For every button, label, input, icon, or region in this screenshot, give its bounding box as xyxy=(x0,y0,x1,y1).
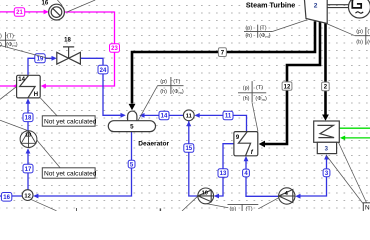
pointer line to pump13 top xyxy=(0,120,27,130)
Not yet calculated box B xyxy=(42,168,96,178)
pointer line turbine to right data box xyxy=(327,24,355,36)
wire steam 7 (thick black) xyxy=(132,21,315,103)
generator G xyxy=(349,0,370,18)
svg-text:(p): (p) xyxy=(245,26,252,32)
svg-text:(Φm): (Φm) xyxy=(259,33,271,39)
svg-text:14: 14 xyxy=(18,77,25,83)
pointer line condenser bottom right xyxy=(339,143,369,208)
wire steam 12 (thick black) xyxy=(264,22,321,144)
svg-text:23: 23 xyxy=(111,46,118,52)
label 11 xyxy=(223,111,233,120)
label 7 xyxy=(218,48,226,57)
svg-text:(Φm): (Φm) xyxy=(6,42,18,48)
label 2 (stream) xyxy=(322,82,330,91)
Not yet calculated box A xyxy=(42,116,96,126)
wire stream 13 (blue) xyxy=(219,144,234,196)
wire stream 21 (magenta) xyxy=(0,11,45,13)
svg-text:18: 18 xyxy=(64,38,71,44)
svg-text:24: 24 xyxy=(100,68,107,74)
data box F (heater 9) xyxy=(238,81,266,102)
label 4 xyxy=(243,169,250,177)
svg-text:16: 16 xyxy=(42,0,49,6)
wire stream 16 (blue) xyxy=(0,195,23,197)
wire cooling water in (green) xyxy=(345,137,370,139)
svg-text:(T): (T) xyxy=(7,34,14,40)
steam turbine 2 xyxy=(304,0,327,24)
data box fragment (bottom left) xyxy=(76,208,78,211)
data box D (turbine right, clipped) xyxy=(355,27,370,45)
svg-text:21: 21 xyxy=(16,10,23,16)
label 15 xyxy=(184,144,194,153)
svg-text:Not yet calculated: Not yet calculated xyxy=(44,171,97,178)
data box C (turbine left) xyxy=(244,25,272,38)
svg-text:12: 12 xyxy=(24,193,30,199)
wire stream 11 (blue) xyxy=(200,115,247,131)
node 12 xyxy=(22,190,33,201)
svg-text:(T): (T) xyxy=(256,85,263,91)
wire stream 15 (blue) xyxy=(189,120,198,196)
pointer line pump13 to Not-yet-calculated B xyxy=(30,132,60,167)
svg-text:19: 19 xyxy=(37,57,44,63)
svg-text:(T): (T) xyxy=(173,79,180,85)
label 23 xyxy=(110,44,120,53)
svg-text:12: 12 xyxy=(284,84,291,90)
label 13 xyxy=(218,169,228,178)
pointer line pump16 right xyxy=(67,0,96,12)
Not yet calculated box N (bottom right, clipped) xyxy=(363,203,370,212)
label 21 xyxy=(14,8,24,17)
label 3 xyxy=(323,169,330,177)
heat exchanger 9 xyxy=(234,132,258,156)
pointer line pump16 top xyxy=(57,0,62,6)
pump 4 xyxy=(279,188,295,204)
svg-text:(Φm): (Φm) xyxy=(255,96,267,102)
svg-text:(h): (h) xyxy=(356,40,363,46)
label 24 xyxy=(98,65,108,74)
svg-text:): ) xyxy=(0,34,2,40)
pointer line heater14 left xyxy=(0,86,17,99)
valve 18 xyxy=(57,47,81,64)
shaft xyxy=(327,5,349,8)
svg-text:18: 18 xyxy=(25,116,32,122)
data box fragment (bottom middle-left) xyxy=(159,208,161,211)
svg-text:10: 10 xyxy=(202,190,208,196)
svg-text:(h): (h) xyxy=(245,33,252,39)
heat exchanger 14 xyxy=(17,75,41,98)
svg-text:15: 15 xyxy=(185,146,192,152)
svg-text:11: 11 xyxy=(186,114,193,120)
svg-text:(p): (p) xyxy=(160,79,167,85)
wire cooling water out (green) xyxy=(340,127,370,129)
wire stream 14 (blue into deaerator) xyxy=(144,114,184,116)
pointer line to valve inlet xyxy=(0,45,50,59)
svg-text:(p): (p) xyxy=(243,86,250,92)
label 16 xyxy=(1,193,11,202)
wire stream 22 (magenta out of heater 14) xyxy=(0,85,17,87)
svg-text:Not yet calculated: Not yet calculated xyxy=(44,119,97,126)
node 11 xyxy=(183,110,194,121)
data box E (deaerator) xyxy=(158,77,184,94)
wire stream 3 (blue) xyxy=(301,159,327,196)
svg-text:Not yet calculated: Not yet calculated xyxy=(365,204,370,211)
label 19 xyxy=(35,54,45,63)
svg-text:11: 11 xyxy=(225,114,232,120)
svg-text:): ) xyxy=(0,42,2,48)
valve 16 (circle with slash) xyxy=(49,4,65,20)
svg-text:2: 2 xyxy=(314,2,318,9)
svg-text:H: H xyxy=(34,92,38,98)
svg-text:(T): (T) xyxy=(246,206,253,211)
label 17 xyxy=(23,164,33,173)
label 5 xyxy=(128,160,135,168)
svg-text:(h): (h) xyxy=(160,89,167,95)
data box H (bottom centre, clipped) xyxy=(228,204,259,211)
pointer line node12 to bottom data box xyxy=(31,199,57,211)
wire stream 5 (blue) xyxy=(37,132,132,196)
wire stream 23 (magenta) xyxy=(46,12,115,86)
svg-text:17: 17 xyxy=(25,167,32,173)
svg-text:(p): (p) xyxy=(356,29,363,35)
label 14 xyxy=(159,111,169,120)
svg-text:Steam Turbine: Steam Turbine xyxy=(246,1,295,10)
wire stream 17 (blue) xyxy=(27,153,29,190)
wire stream 19 (blue) xyxy=(28,58,52,75)
svg-text:16: 16 xyxy=(3,195,10,201)
svg-text:13: 13 xyxy=(220,171,227,177)
pointer line bottom data box H to pump10 xyxy=(207,204,228,208)
data box G (top left, clipped) xyxy=(0,32,16,48)
svg-text:(Φm): (Φm) xyxy=(172,89,184,95)
svg-text:(p): (p) xyxy=(230,206,237,211)
label 18 xyxy=(23,113,33,122)
svg-text:Deaerator: Deaerator xyxy=(138,140,169,147)
svg-text:14: 14 xyxy=(161,114,168,120)
pointer line heater14 to Not-yet-calculated A xyxy=(40,98,57,116)
svg-text:5: 5 xyxy=(130,124,134,131)
pump 13 xyxy=(20,131,37,148)
svg-text:13: 13 xyxy=(25,133,31,139)
pointer line bottom data box H to pump4 xyxy=(258,197,280,209)
wire stream 24 (blue) xyxy=(80,58,121,115)
pointer line data box F to heater 9 xyxy=(252,102,258,131)
deaerator 5 xyxy=(108,111,155,132)
wire steam 2 (thick black) xyxy=(324,24,327,116)
wire stream 4 (blue) xyxy=(246,161,279,197)
svg-text:(h): (h) xyxy=(243,96,250,102)
svg-text:(T): (T) xyxy=(260,25,267,31)
pointer line condenser to N box xyxy=(326,155,363,203)
pump 10 xyxy=(198,188,214,204)
pointer line turbine to left data box xyxy=(272,20,307,32)
label 12 xyxy=(282,82,292,90)
wire stream 18 (blue) xyxy=(27,103,29,130)
pointer line pump10 left down xyxy=(182,196,198,211)
pointer line data box E to deaerator dome xyxy=(138,86,158,121)
condenser 3 xyxy=(314,121,340,154)
